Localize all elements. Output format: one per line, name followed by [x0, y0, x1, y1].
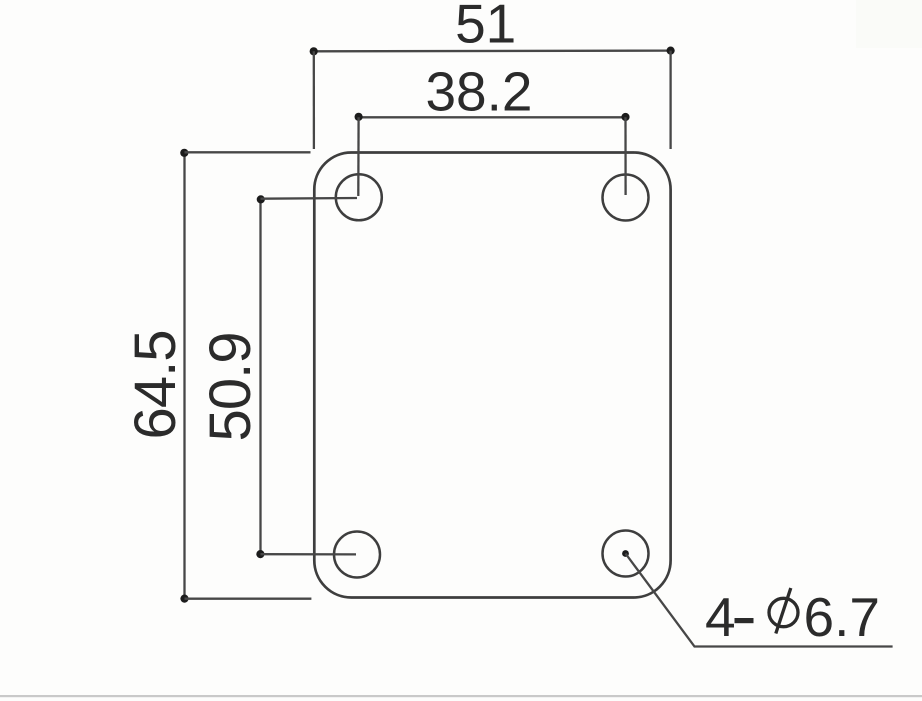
svg-text:38.2: 38.2: [425, 61, 532, 123]
svg-text:6.7: 6.7: [804, 586, 880, 648]
svg-text:64.5: 64.5: [123, 331, 188, 440]
svg-text:50.9: 50.9: [198, 333, 263, 442]
svg-text:4: 4: [705, 586, 736, 648]
svg-text:51: 51: [455, 0, 516, 55]
